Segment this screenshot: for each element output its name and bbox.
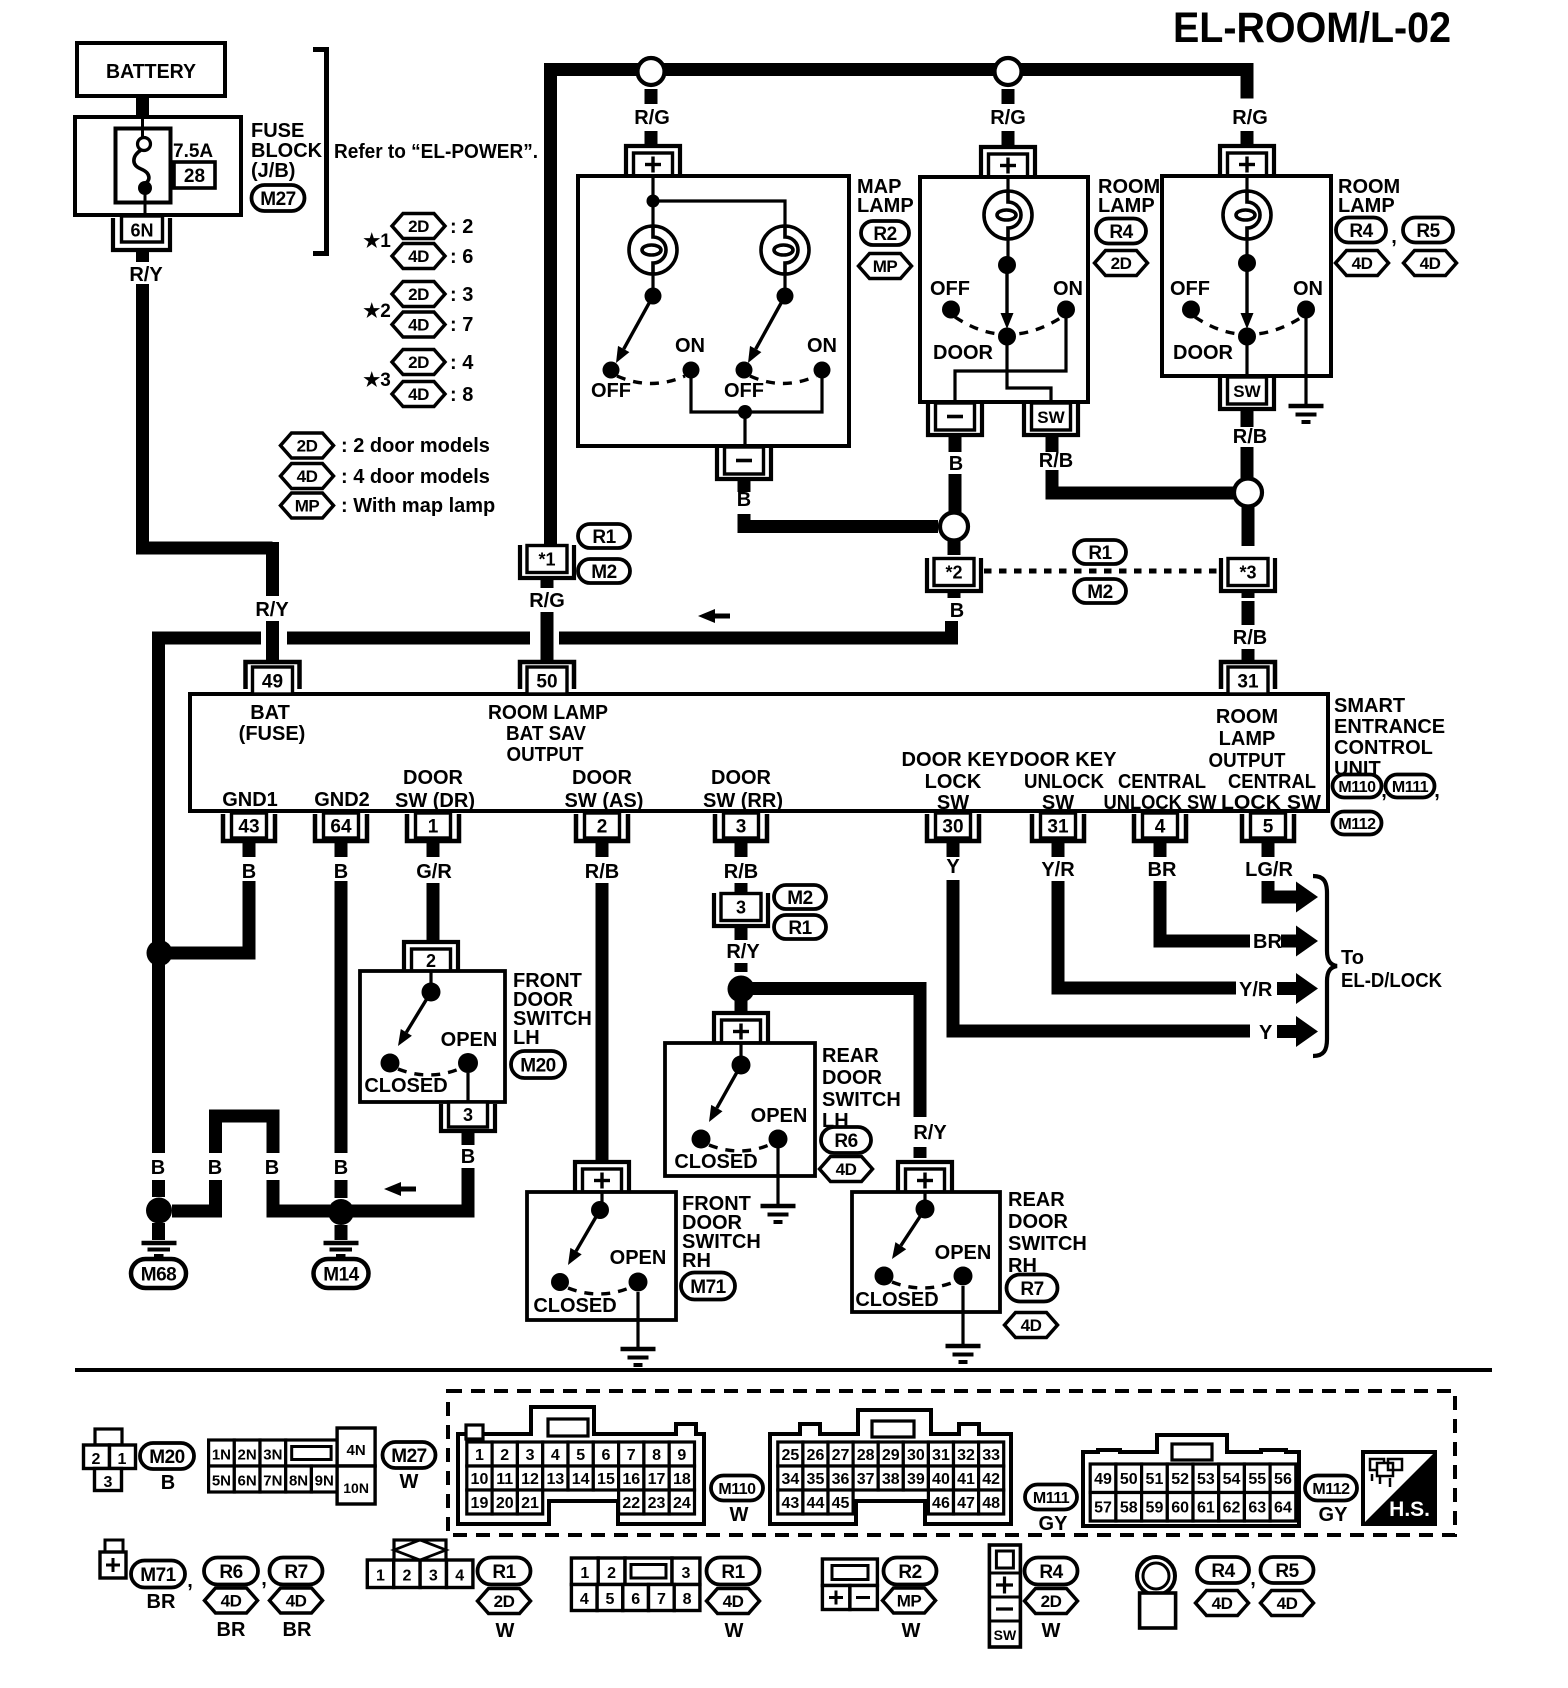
svg-text:13: 13 <box>546 1471 564 1488</box>
svg-text:4D: 4D <box>408 316 429 335</box>
svg-text:R/Y: R/Y <box>255 599 289 621</box>
wire B front door switch LH <box>348 1131 475 1211</box>
legend *3 <box>363 350 474 407</box>
connector + rear door switch LH <box>75 1013 1492 1647</box>
svg-text:M71: M71 <box>140 1565 176 1586</box>
junction dot M14 <box>328 1199 354 1225</box>
svg-text:OFF: OFF <box>591 380 631 402</box>
svg-text:7: 7 <box>657 1591 666 1608</box>
label B rail <box>151 1157 165 1179</box>
fuse block J/B box <box>75 117 241 215</box>
svg-text:20: 20 <box>496 1495 514 1512</box>
wire B map lamp <box>738 479 751 492</box>
svg-text:4: 4 <box>1155 817 1166 838</box>
svg-text:W: W <box>400 1471 419 1493</box>
arrow BR to EL-D/LOCK <box>1281 926 1318 957</box>
badge R7 <box>1007 1275 1058 1302</box>
svg-text:3: 3 <box>736 817 747 838</box>
svg-text:3: 3 <box>104 1474 113 1491</box>
svg-text:2: 2 <box>92 1451 101 1468</box>
bulb room lamp 4D <box>1223 176 1271 239</box>
svg-text:*1: *1 <box>538 550 555 570</box>
label B below *2 <box>948 591 965 622</box>
svg-text:2: 2 <box>402 1568 411 1585</box>
svg-text:SW: SW <box>994 1627 1017 1643</box>
pin label DOOR SW RR <box>703 767 783 812</box>
svg-text:59: 59 <box>1146 1500 1164 1517</box>
svg-text:39: 39 <box>907 1471 925 1488</box>
label R/Y <box>129 264 163 286</box>
svg-text:,: , <box>1434 780 1440 802</box>
switch front door RH <box>533 1192 666 1317</box>
pin 1 <box>407 813 459 841</box>
svg-text:Y: Y <box>1259 1022 1273 1044</box>
svg-text:B: B <box>151 1157 165 1179</box>
svg-text:LOCK: LOCK <box>925 771 982 793</box>
svg-text:4D: 4D <box>1277 1594 1298 1613</box>
svg-text:: 8: : 8 <box>450 384 473 406</box>
svg-text:MP: MP <box>897 1592 922 1611</box>
badge R4 2D view <box>1025 1558 1078 1643</box>
connector + front door switch RH <box>75 1162 1492 1647</box>
badge M112 view <box>1305 1476 1357 1527</box>
connector view R4 2D strip <box>989 1545 1020 1647</box>
svg-text:BR: BR <box>1253 931 1282 953</box>
svg-text:31: 31 <box>1047 817 1069 838</box>
pin label DOOR KEY LOCK SW <box>902 749 1010 814</box>
svg-text:22: 22 <box>622 1495 640 1512</box>
svg-text:3: 3 <box>682 1565 691 1582</box>
svg-text:B: B <box>334 1157 348 1179</box>
svg-text:*2: *2 <box>945 563 962 583</box>
svg-text:OPEN: OPEN <box>441 1029 498 1051</box>
switch map lamp 2 <box>724 274 837 402</box>
svg-text:7: 7 <box>627 1447 636 1464</box>
pin 30 <box>927 813 979 841</box>
svg-text:7.5A: 7.5A <box>173 141 213 162</box>
svg-text:15: 15 <box>597 1471 615 1488</box>
pin 31 bottom <box>1032 813 1084 841</box>
switch room lamp 4D <box>1170 239 1323 364</box>
legend *2 <box>363 282 473 338</box>
badge R6 <box>821 1127 871 1153</box>
svg-text:34: 34 <box>781 1471 799 1488</box>
svg-text:BR: BR <box>217 1619 246 1641</box>
svg-text:6: 6 <box>631 1591 640 1608</box>
svg-text:6: 6 <box>601 1447 610 1464</box>
svg-text:M110: M110 <box>1338 779 1376 796</box>
svg-text:OPEN: OPEN <box>935 1242 992 1264</box>
svg-text:: 3: : 3 <box>450 284 473 306</box>
svg-text:M2: M2 <box>787 888 812 909</box>
rear door switch RH box <box>852 1192 1000 1312</box>
svg-text:: 4 door models: : 4 door models <box>341 466 490 488</box>
svg-text:4: 4 <box>580 1591 589 1608</box>
connector view M112 <box>1083 1435 1299 1526</box>
svg-text:W: W <box>730 1504 749 1526</box>
smart entrance control unit box <box>190 694 1328 811</box>
svg-text:4N: 4N <box>347 1442 366 1459</box>
pin 5 <box>1242 813 1294 841</box>
svg-text:37: 37 <box>857 1471 875 1488</box>
svg-text:R/B: R/B <box>585 861 619 883</box>
ground symbol M68 <box>142 1223 177 1256</box>
svg-text:M20: M20 <box>149 1447 184 1468</box>
brace To EL-D/LOCK <box>1313 876 1337 1056</box>
svg-text:: 2: : 2 <box>450 216 473 238</box>
svg-text:M111: M111 <box>1392 779 1429 796</box>
pin label CENTRAL LOCK SW <box>1221 771 1321 814</box>
svg-text:ROOM: ROOM <box>1216 706 1278 728</box>
svg-text:: 7: : 7 <box>450 314 473 336</box>
pin label ROOM LAMP OUTPUT right <box>1209 706 1286 772</box>
badge R4 view round <box>1196 1557 1256 1616</box>
wire R/G stub room2d <box>1002 131 1015 147</box>
wire R/G top bus <box>551 70 1248 547</box>
badge R1 at *1 <box>578 524 630 548</box>
connector *3 <box>1221 558 1275 591</box>
svg-text:R7: R7 <box>284 1562 307 1583</box>
svg-text:M20: M20 <box>520 1055 555 1076</box>
svg-text:4D: 4D <box>1212 1594 1233 1613</box>
connector R2 badge <box>861 221 909 245</box>
connector 6N <box>113 216 170 250</box>
svg-text:47: 47 <box>957 1495 975 1512</box>
pin 43 <box>223 813 275 841</box>
switch rear door LH <box>674 1043 807 1173</box>
svg-text:EL-ROOM/L-02: EL-ROOM/L-02 <box>1173 4 1451 52</box>
svg-text:: 4: : 4 <box>450 352 474 374</box>
junction dot GND1 rail <box>147 940 173 966</box>
svg-text:,: , <box>1250 1568 1256 1590</box>
label B gnd2 <box>334 1157 348 1179</box>
badge R6 view <box>204 1558 267 1642</box>
svg-text:FUSE: FUSE <box>251 120 304 142</box>
svg-text:,: , <box>187 1570 193 1592</box>
wire R/B room lamp 2D <box>1039 435 1235 493</box>
svg-text:GND1: GND1 <box>222 789 278 811</box>
battery B1 <box>77 43 225 96</box>
svg-text:R/B: R/B <box>1233 627 1267 649</box>
svg-text:4: 4 <box>455 1568 464 1585</box>
badge M27 view <box>383 1442 436 1493</box>
svg-text:63: 63 <box>1248 1500 1266 1517</box>
badge R2 view <box>883 1558 937 1643</box>
wire BR pin 4 <box>1148 841 1250 941</box>
wire Y/R pin 31 <box>1041 841 1236 988</box>
svg-text:ON: ON <box>1293 278 1323 300</box>
room lamp 4D box <box>1162 176 1331 376</box>
svg-text:45: 45 <box>832 1495 850 1512</box>
connector + rear door switch RH <box>75 1162 1492 1647</box>
svg-text:LAMP: LAMP <box>1098 195 1155 217</box>
badge 4D room lamp b <box>1404 251 1457 276</box>
svg-text:BAT: BAT <box>250 702 290 724</box>
svg-text:OUTPUT: OUTPUT <box>1209 750 1286 772</box>
svg-text:BATTERY: BATTERY <box>106 61 197 83</box>
svg-text:R6: R6 <box>219 1562 242 1583</box>
dashed box around unit connectors <box>448 1391 1455 1535</box>
switch rear door RH <box>855 1192 991 1311</box>
svg-text:2D: 2D <box>297 437 318 456</box>
wire LG/R pin 5 <box>1245 841 1296 897</box>
svg-text:56: 56 <box>1274 1471 1292 1488</box>
wire ground bus horizontal <box>152 632 958 645</box>
wire R/B pin 2 <box>585 841 619 1160</box>
front door switch RH box <box>527 1192 676 1320</box>
svg-text:1: 1 <box>475 1447 484 1464</box>
wire R/Y to rear door switch LH <box>735 1000 748 1013</box>
ground rear door switch LH <box>761 1148 796 1222</box>
connector view R4 R5 round <box>1137 1557 1176 1628</box>
badge 4D rear LH <box>820 1157 873 1182</box>
svg-text:30: 30 <box>907 1447 925 1464</box>
junction node on bus at map lamp <box>638 58 665 85</box>
front door switch LH box <box>360 971 505 1102</box>
pin 64 <box>315 813 367 841</box>
svg-text:42: 42 <box>982 1471 1000 1488</box>
pin label GND1 <box>222 789 278 811</box>
svg-text:ROOM LAMP: ROOM LAMP <box>488 702 608 724</box>
svg-text:B: B <box>161 1472 175 1494</box>
svg-text:(FUSE): (FUSE) <box>239 723 306 745</box>
svg-text:19: 19 <box>471 1495 489 1512</box>
bulb map lamp 1 <box>629 201 677 274</box>
pin label ROOM LAMP BAT SAV OUTPUT <box>488 702 608 766</box>
svg-text:4: 4 <box>551 1447 560 1464</box>
svg-text:10N: 10N <box>343 1480 369 1496</box>
svg-text:R6: R6 <box>834 1131 857 1152</box>
svg-text:GY: GY <box>1319 1504 1349 1526</box>
svg-text:48: 48 <box>982 1495 1000 1512</box>
svg-text:2D: 2D <box>408 217 429 236</box>
pin 49 <box>246 662 300 694</box>
wire R/Y into pin 49 <box>266 621 279 662</box>
label R/G below *1 <box>529 578 565 612</box>
svg-text:M2: M2 <box>591 562 616 583</box>
svg-text:SWITCH: SWITCH <box>822 1089 901 1111</box>
legend MP <box>281 493 496 518</box>
svg-text:2: 2 <box>500 1447 509 1464</box>
svg-text:R1: R1 <box>592 527 616 548</box>
svg-text:14: 14 <box>572 1471 590 1488</box>
connector *1 <box>520 545 574 578</box>
svg-text:24: 24 <box>673 1495 691 1512</box>
svg-text:DOOR: DOOR <box>933 342 994 364</box>
svg-text:DOOR: DOOR <box>822 1067 883 1089</box>
svg-text:R/Y: R/Y <box>129 264 163 286</box>
wire open contact to pin 3 LH <box>466 1073 469 1103</box>
svg-text:10: 10 <box>471 1471 489 1488</box>
svg-text:M14: M14 <box>323 1264 359 1285</box>
svg-text:W: W <box>1042 1620 1061 1642</box>
wire jumper right leg <box>273 1180 330 1211</box>
svg-text:R/Y: R/Y <box>913 1122 947 1144</box>
svg-text:DOOR: DOOR <box>1008 1211 1069 1233</box>
svg-text:Refer to “EL-POWER”.: Refer to “EL-POWER”. <box>334 141 538 163</box>
svg-text:Y: Y <box>946 856 960 878</box>
label R/G room4d <box>1232 107 1268 129</box>
svg-text:R4: R4 <box>1211 1561 1235 1582</box>
badge R1 2D view <box>478 1558 531 1643</box>
svg-text:CLOSED: CLOSED <box>674 1151 757 1173</box>
svg-text:49: 49 <box>262 672 283 693</box>
svg-text:8N: 8N <box>289 1473 308 1490</box>
arrow on B wire <box>384 1182 416 1196</box>
wire R/G stub room4d <box>1241 131 1254 147</box>
label R/B below *3 <box>1233 591 1267 649</box>
label B jumper left <box>208 1157 222 1179</box>
connector view M20 <box>84 1429 136 1491</box>
svg-text:B: B <box>949 453 963 475</box>
svg-text:17: 17 <box>648 1471 666 1488</box>
arrow LG/R to EL-D/LOCK <box>1290 882 1318 913</box>
label R/Y 2 <box>255 599 289 621</box>
connector M27 badge <box>252 185 305 211</box>
wire R/B room lamp 4D <box>1233 409 1267 478</box>
svg-text:2D: 2D <box>1041 1592 1062 1611</box>
svg-text:R1: R1 <box>721 1562 745 1583</box>
jumper loop between grounds <box>216 1116 274 1153</box>
svg-text:1: 1 <box>428 817 439 838</box>
svg-text:33: 33 <box>982 1447 1000 1464</box>
wire G/R pin 1 <box>416 841 452 943</box>
ground rear door switch RH <box>946 1286 981 1362</box>
svg-text:CENTRAL: CENTRAL <box>1228 771 1316 793</box>
switch map lamp 1 <box>591 274 705 402</box>
svg-text:B: B <box>242 861 256 883</box>
svg-text:GY: GY <box>1039 1513 1069 1535</box>
junction dot M68 <box>146 1198 172 1224</box>
svg-text:M112: M112 <box>1312 1481 1350 1498</box>
svg-text:55: 55 <box>1248 1471 1266 1488</box>
svg-text:M71: M71 <box>690 1277 726 1298</box>
svg-text:SW (RR): SW (RR) <box>703 790 783 812</box>
svg-text:5: 5 <box>606 1591 615 1608</box>
svg-text:4D: 4D <box>1420 254 1441 273</box>
title EL-ROOM/L-02 <box>1173 4 1451 52</box>
svg-text:M27: M27 <box>260 189 295 210</box>
svg-text:ENTRANCE: ENTRANCE <box>1334 716 1445 738</box>
badge MP map lamp <box>859 254 912 279</box>
svg-text:29: 29 <box>882 1447 900 1464</box>
svg-text:M111: M111 <box>1033 1490 1070 1507</box>
svg-text:2D: 2D <box>408 285 429 304</box>
svg-text:OFF: OFF <box>930 278 970 300</box>
ground front door switch RH <box>621 1292 656 1365</box>
svg-text:28: 28 <box>857 1447 875 1464</box>
wire R/B pin 3 <box>724 841 758 894</box>
svg-text:W: W <box>496 1620 515 1642</box>
svg-text:ON: ON <box>675 335 705 357</box>
svg-text:49: 49 <box>1094 1471 1112 1488</box>
map lamp box <box>578 176 849 446</box>
svg-text:B: B <box>461 1146 475 1168</box>
svg-text:OPEN: OPEN <box>751 1105 808 1127</box>
svg-text:38: 38 <box>882 1471 900 1488</box>
svg-text:9: 9 <box>677 1447 686 1464</box>
room lamp 2D box <box>920 177 1088 402</box>
svg-text:44: 44 <box>807 1495 825 1512</box>
svg-text:R/G: R/G <box>634 107 670 129</box>
svg-text:4D: 4D <box>1021 1316 1042 1335</box>
ground connector M14 badge <box>314 1259 369 1288</box>
svg-text:W: W <box>902 1620 921 1642</box>
svg-text:: With map lamp: : With map lamp <box>341 495 495 517</box>
badge M110 view <box>711 1476 763 1527</box>
svg-text:★3: ★3 <box>363 370 391 391</box>
badge R1 mid <box>1074 540 1126 564</box>
wire R/Y to rear door switch RH <box>752 989 947 1159</box>
svg-text:18: 18 <box>673 1471 691 1488</box>
svg-text:8: 8 <box>683 1591 692 1608</box>
svg-text:R4: R4 <box>1109 222 1133 243</box>
wire rail stub to M68 dot <box>152 1180 165 1197</box>
separator line <box>75 1368 1492 1372</box>
wire R/B to *3 <box>1242 506 1255 546</box>
svg-text:3: 3 <box>736 898 746 918</box>
svg-text:ON: ON <box>807 335 837 357</box>
wire B room lamp 2D <box>949 435 964 513</box>
svg-text:R1: R1 <box>1088 543 1112 564</box>
arrow on ground bus <box>698 609 730 623</box>
svg-text:64: 64 <box>1274 1500 1292 1517</box>
svg-text:R7: R7 <box>1020 1279 1043 1300</box>
svg-text:2D: 2D <box>1111 254 1132 273</box>
svg-text:R4: R4 <box>1039 1562 1063 1583</box>
legend 2D <box>281 433 490 458</box>
pin 31 top <box>1221 662 1275 694</box>
pin label GND2 <box>314 789 370 811</box>
svg-text:60: 60 <box>1171 1500 1189 1517</box>
svg-text:R2: R2 <box>898 1562 921 1583</box>
svg-text:R1: R1 <box>788 918 812 939</box>
svg-text:23: 23 <box>648 1495 666 1512</box>
wire room lamp 2D door common to SW <box>1007 345 1051 402</box>
svg-text:M112: M112 <box>1338 816 1376 833</box>
svg-text:6N: 6N <box>130 221 153 241</box>
svg-text:57: 57 <box>1094 1500 1112 1517</box>
svg-text:4D: 4D <box>408 247 429 266</box>
wire R/Y battery feed down and over to pin 49 <box>143 284 273 596</box>
bracket refer note <box>313 50 327 254</box>
wire jumper left leg <box>172 1180 216 1211</box>
svg-text:2D: 2D <box>494 1592 515 1611</box>
svg-text:REAR: REAR <box>1008 1189 1065 1211</box>
pin label BAT FUSE <box>239 702 306 745</box>
label REAR DOOR SWITCH RH <box>1008 1189 1087 1277</box>
svg-text:B: B <box>950 600 964 622</box>
svg-text:CLOSED: CLOSED <box>855 1289 938 1311</box>
svg-text:R/B: R/B <box>1233 426 1267 448</box>
svg-text:53: 53 <box>1197 1471 1215 1488</box>
pin 3 <box>715 813 767 841</box>
svg-text:4D: 4D <box>221 1592 242 1611</box>
fuse F28 7.5A <box>116 117 171 216</box>
svg-text:5: 5 <box>576 1447 585 1464</box>
svg-text:B: B <box>334 861 348 883</box>
bulb room lamp 2D <box>984 177 1032 239</box>
badge R1 4D view <box>707 1558 760 1643</box>
svg-text:SW: SW <box>1037 408 1065 427</box>
switch room lamp 2D <box>930 239 1083 364</box>
wire battery to fuse block <box>136 96 149 117</box>
svg-text:26: 26 <box>807 1447 825 1464</box>
svg-text:2: 2 <box>426 951 436 971</box>
connector R4 badge 4D <box>1336 218 1397 249</box>
label REAR DOOR SWITCH LH <box>822 1045 901 1132</box>
badge M110 <box>1333 775 1387 803</box>
